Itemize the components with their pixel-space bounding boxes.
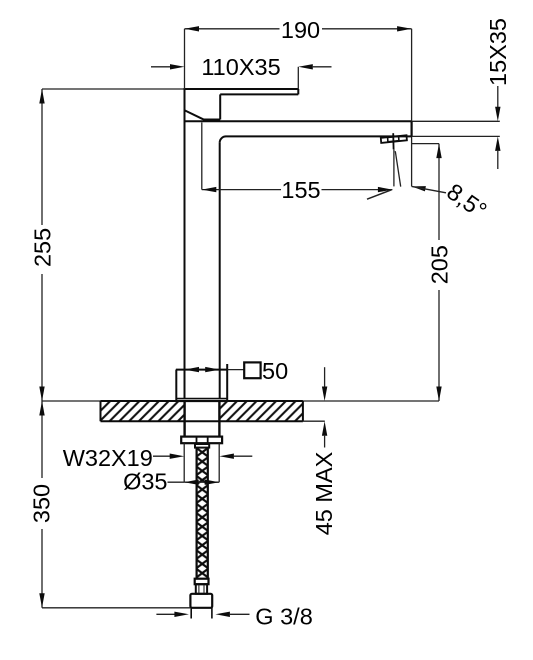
base block top edge xyxy=(176,369,227,371)
svg-text:110X35: 110X35 xyxy=(201,54,280,80)
countertop bottom extension right to 45 MAX xyxy=(303,420,325,422)
dimension square-50 right arrow xyxy=(205,367,220,372)
lever top surface xyxy=(184,88,299,90)
dimension 45 MAX bottom arrow xyxy=(322,421,327,436)
spout top edge xyxy=(185,120,412,122)
svg-text:190: 190 xyxy=(281,17,320,43)
mounting nut xyxy=(181,437,222,444)
svg-text:155: 155 xyxy=(281,177,320,203)
dimension 8,5 deg arrow xyxy=(412,186,426,191)
dimension 255 label xyxy=(30,225,53,274)
dimension W32X19 left arrow line xyxy=(153,455,171,457)
dimension W32X19 right arrow xyxy=(219,454,234,459)
countertop hatched section left xyxy=(101,401,185,421)
svg-text:W32X19: W32X19 xyxy=(63,445,153,471)
svg-text:Ø35: Ø35 xyxy=(123,468,167,494)
dimension square-50 leader xyxy=(227,369,244,371)
dimension diam-35 left arrow xyxy=(184,480,199,485)
dimension 110X35 left arrow xyxy=(170,64,185,69)
dimension W32X19 right arrow line xyxy=(234,455,252,457)
dimension 255 line xyxy=(41,89,43,401)
dimension 255 top arrow xyxy=(39,89,44,104)
shank left edge through counter xyxy=(183,401,185,437)
lever top extension line to 255 dim xyxy=(42,88,185,90)
dimension 350 label xyxy=(30,478,53,529)
dimension 15X35 bottom arrow line xyxy=(497,151,499,169)
dimension 350 top arrow xyxy=(39,401,44,416)
dimension 205 top arrow xyxy=(436,144,441,159)
dimension G 3/8 right arrow line xyxy=(230,613,250,615)
spout bottom edge xyxy=(226,135,412,137)
dimension 45 MAX top line xyxy=(324,367,326,387)
dimension diam-35 leader xyxy=(168,481,185,483)
braided hose left edge xyxy=(196,448,198,579)
dimension W32X19 left arrow xyxy=(170,454,185,459)
countertop outline xyxy=(101,401,303,421)
hose bottom collar xyxy=(195,579,209,585)
dimension 350 line xyxy=(41,401,43,608)
dimension 45 MAX top arrow xyxy=(322,387,327,402)
dimension 155 label xyxy=(281,182,322,200)
base bottom edge xyxy=(176,400,227,402)
base block right edge with stub above xyxy=(226,364,228,401)
aerator center tick xyxy=(392,133,394,149)
dimension 8,5 deg leader xyxy=(412,186,446,192)
svg-text:50: 50 xyxy=(262,358,288,384)
dimension 255 bottom arrow xyxy=(39,387,44,402)
dimension 205 label xyxy=(428,240,451,290)
dimension 15X35 bottom arrow xyxy=(495,136,500,151)
dimension 155 extension line (spout centerline) xyxy=(201,123,203,190)
hose neck facet left xyxy=(198,585,200,593)
thread extension line right xyxy=(218,443,220,482)
braided hose right edge xyxy=(207,448,209,579)
spout end extension down to angle vertex xyxy=(411,136,413,186)
countertop top extension right to 205 xyxy=(303,400,439,402)
dimension square-50 square symbol xyxy=(244,362,260,378)
spout end extension up to 190 dim xyxy=(411,29,413,122)
dimension 155 right arrow xyxy=(378,187,393,192)
body right edge xyxy=(219,143,221,399)
dimension diam-35 line xyxy=(184,481,219,483)
svg-text:45 MAX: 45 MAX xyxy=(311,451,337,535)
braided hose body xyxy=(196,448,209,579)
spout bottom extension to 15X35 xyxy=(412,135,500,137)
dimension 15X35 top arrow line xyxy=(497,86,499,107)
aerator outline xyxy=(381,135,407,143)
dimension square-50 left arrow xyxy=(185,367,200,372)
dimension 350 bottom arrow xyxy=(39,593,44,608)
dimension 15X35 top arrow xyxy=(495,107,500,122)
handle base slant xyxy=(184,110,204,120)
base plate line xyxy=(176,398,227,400)
dimension 190 label xyxy=(280,20,323,39)
hose end nut right stub xyxy=(211,608,213,619)
svg-text:15X35: 15X35 xyxy=(485,18,511,86)
mounting nut facet left xyxy=(196,437,198,444)
lever underside xyxy=(220,93,298,95)
spout inner bend arc xyxy=(220,136,226,143)
svg-text:205: 205 xyxy=(427,245,453,284)
hose end nut xyxy=(190,594,212,608)
dimension 155 line xyxy=(202,189,393,191)
body left edge xyxy=(184,89,186,399)
svg-text:255: 255 xyxy=(30,228,56,267)
dimension G 3/8 right arrow xyxy=(215,612,230,617)
dimension 110X35 left arrow line xyxy=(151,66,171,68)
dimension 205 connector line xyxy=(412,143,439,145)
dimension 205 bottom arrow xyxy=(436,387,441,402)
dimension 190 right arrow xyxy=(397,26,412,31)
dimension 110X35 right extension line xyxy=(297,67,299,89)
dimension G 3/8 left arrow line xyxy=(156,613,175,615)
shank right edge through counter xyxy=(218,401,220,437)
dimension 190 line xyxy=(185,28,412,30)
dimension 190 left arrow xyxy=(185,26,200,31)
dimension 110X35 right arrow xyxy=(298,64,313,69)
dimension 350 bottom extension xyxy=(42,607,190,609)
thread extension line left xyxy=(183,443,185,482)
spout top extension to 15X35 xyxy=(412,120,500,122)
aerator insert xyxy=(388,136,399,142)
handle base right edge xyxy=(219,94,221,119)
hose top collar xyxy=(195,444,209,448)
countertop top extension left to 255/350 xyxy=(42,400,101,402)
dimension 155 left arrow xyxy=(202,187,217,192)
body left edge extension up to 190 dim xyxy=(184,29,186,89)
dimension diam-35 right arrow xyxy=(205,480,220,485)
spout end edge xyxy=(411,121,413,136)
dimension G 3/8 left arrow xyxy=(174,612,189,617)
countertop hatched section right xyxy=(220,401,303,421)
hose neck facet right xyxy=(203,585,205,593)
mounting nut facet right xyxy=(207,437,209,444)
base block left edge xyxy=(175,370,177,402)
svg-text:350: 350 xyxy=(28,484,54,523)
svg-text:G 3/8: G 3/8 xyxy=(255,604,312,630)
dimension 110X35 right arrow line xyxy=(313,66,332,68)
angle tilted line 8.5 deg xyxy=(395,151,400,186)
lever right edge xyxy=(297,89,299,94)
angle reference vertical line xyxy=(393,149,395,186)
handle base bottom xyxy=(203,119,220,121)
dimension 205 line xyxy=(438,144,440,401)
hose end nut left stub xyxy=(190,608,192,619)
hose neck xyxy=(196,584,207,594)
dimension 45 MAX bottom line xyxy=(324,436,326,448)
dimension 155 right arrow tail xyxy=(367,190,392,199)
